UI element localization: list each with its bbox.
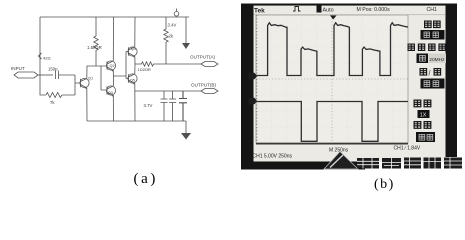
resistor 2k pullup (164, 17, 168, 64)
svg-text:/: / (429, 71, 431, 78)
menu label probe (414, 100, 431, 107)
trigger icon (293, 7, 301, 12)
watermark char 3 (404, 158, 421, 169)
menu label volts div (420, 69, 440, 78)
wire Q4 emitter to output node (134, 56, 136, 64)
menu label bandwidth limit (408, 44, 445, 50)
wire Q3 emitter down to bottom rail (112, 95, 114, 121)
wire base column Q2 Q3 (101, 66, 107, 90)
output terminal B (201, 89, 218, 94)
channel 2 marker (249, 98, 258, 104)
bottom readouts (253, 146, 421, 160)
menu box 1X (418, 110, 430, 118)
wire Q1 emitter down (86, 88, 88, 121)
ground (181, 121, 191, 140)
svg-text:(b): (b) (374, 177, 395, 192)
wire top supply rail (40, 16, 189, 18)
oscilloscope screen (254, 6, 446, 162)
watermark char 5 (444, 158, 462, 169)
svg-text:1Ω2ΩR: 1Ω2ΩR (138, 67, 151, 72)
svg-text:OUTPUT(A): OUTPUT(A) (190, 55, 215, 60)
menu label coupling (425, 21, 440, 27)
wire RC right junction (62, 75, 81, 95)
svg-text:Tek: Tek (254, 8, 265, 15)
graticule (256, 15, 408, 144)
menu label invert (414, 122, 431, 129)
svg-text:20MHz: 20MHz (429, 57, 445, 63)
resistor 1.5k from rail (94, 17, 98, 66)
svg-text:42Ω: 42Ω (43, 56, 50, 61)
supply down arrow (182, 17, 190, 49)
wire Q2 emitter to Q3 collector node (112, 70, 114, 86)
svg-text:150p: 150p (48, 67, 58, 72)
wire Q5 emitter down (134, 83, 136, 121)
watermark char 1 (357, 158, 379, 169)
svg-text:(a): (a) (134, 171, 158, 187)
transistor Q4 (128, 47, 137, 58)
transistor Q3 (106, 86, 115, 97)
svg-text:3.4V: 3.4V (168, 23, 177, 28)
waveform channel 1 (256, 23, 408, 76)
wire Q4 collector to rail (134, 17, 136, 47)
menu box off (416, 132, 435, 142)
menu box DC (421, 30, 445, 40)
wire mid node to Q4 Q5 base column (114, 52, 129, 79)
svg-text:CH1 5.00V 250ns: CH1 5.00V 250ns (253, 154, 293, 160)
wire left vertical from rail to input node (39, 17, 41, 75)
trigger mode box (317, 6, 322, 13)
wire RC left branch down (40, 75, 46, 95)
transistor Q1 (80, 78, 89, 89)
transistor Q2 (106, 61, 115, 72)
watermark char 2 (382, 158, 401, 169)
transistor Q5 (128, 74, 137, 85)
wire Q5 collector to output node (134, 64, 136, 74)
wire Q1 collector up (87, 66, 101, 78)
svg-text:CH1 ∕ 1.84V: CH1 ∕ 1.84V (394, 146, 421, 152)
resistor 7k (46, 93, 62, 98)
watermark logo triangle (324, 152, 358, 170)
menu box 20MHz (417, 54, 447, 64)
oscilloscope bezel (241, 4, 457, 170)
schematic text labels (11, 23, 216, 108)
side menu (408, 21, 446, 142)
wire Q2 collector to rail (112, 17, 114, 61)
svg-text:1.5kΩR: 1.5kΩR (87, 45, 102, 50)
input terminal INPUT (14, 72, 38, 78)
svg-text:Q4: Q4 (131, 47, 136, 51)
svg-text:OUTPUT(B): OUTPUT(B) (191, 83, 216, 88)
menu box coarse (421, 79, 445, 89)
svg-text:Q3: Q3 (108, 91, 113, 95)
svg-text:CH1: CH1 (427, 7, 437, 13)
top bar readouts (254, 6, 446, 15)
svg-text:Auto: Auto (323, 8, 334, 14)
svg-text:Q2: Q2 (110, 64, 115, 68)
capacitor bottom 1 (161, 91, 168, 121)
capacitor C 150p (56, 71, 76, 80)
node marker on left vertical (42 label) (39, 53, 42, 59)
trigger position marker (330, 16, 337, 20)
resistor 1ohm2 output series (135, 62, 201, 66)
svg-text:1X: 1X (420, 112, 427, 118)
watermark char 4 (424, 158, 442, 169)
wire bottom rail (87, 120, 186, 122)
wire input to RC network (38, 74, 53, 76)
svg-text:7k: 7k (50, 100, 55, 105)
svg-text:2k: 2k (169, 34, 174, 39)
top bar underline (254, 14, 446, 16)
output terminal A (201, 62, 218, 67)
svg-text:3.7V: 3.7V (144, 103, 153, 108)
capacitor bottom 3 (179, 91, 187, 121)
waveform channel 2 (255, 102, 408, 142)
channel 1 marker (249, 73, 258, 79)
svg-text:M Pos: 0.000s: M Pos: 0.000s (357, 7, 391, 13)
supply terminal 3.4V (174, 9, 179, 17)
wire output B line (135, 90, 201, 92)
capacitor bottom 2 (169, 91, 176, 121)
svg-text:Q1: Q1 (88, 77, 93, 81)
svg-text:Q5: Q5 (130, 78, 135, 82)
svg-text:INPUT: INPUT (11, 66, 25, 71)
